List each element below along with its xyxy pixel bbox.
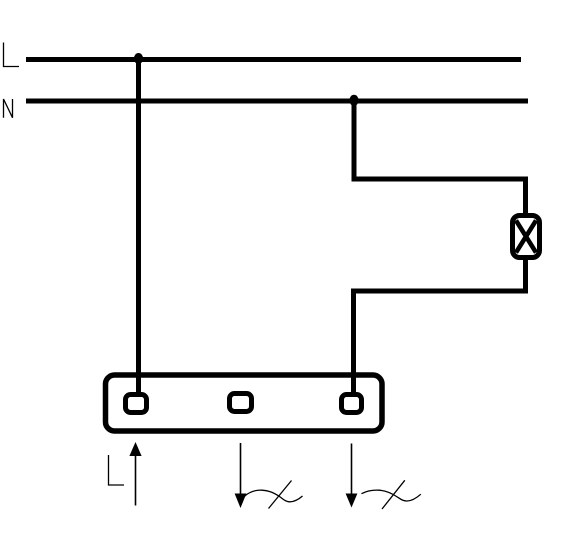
label L (line conductor) xyxy=(4,43,20,67)
switch terminal 3 xyxy=(342,395,362,413)
lamp E1 cross xyxy=(516,221,536,253)
arrow switched line 1 (down) shaft xyxy=(240,443,242,495)
switched-wire slash 2 xyxy=(382,480,405,509)
arrow incoming feed (up) shaft xyxy=(135,454,137,506)
label L at switch feed xyxy=(109,455,125,485)
switched-wire squiggle 1 xyxy=(245,490,303,502)
arrow switched line 2 (down) head xyxy=(346,494,358,508)
arrow switched line 1 (down) head xyxy=(235,494,247,509)
lamp E1 body xyxy=(513,216,540,258)
switch terminal 2 xyxy=(230,394,252,412)
wire from lamp E1 to switch terminal 3 xyxy=(354,257,526,397)
junction dot on N bus xyxy=(349,95,358,106)
label N (neutral conductor) xyxy=(4,99,13,118)
wire from N junction to lamp E1 xyxy=(354,101,526,216)
switched-wire slash 1 xyxy=(269,481,292,509)
arrow incoming feed (up) head xyxy=(129,442,141,456)
wire N bus xyxy=(26,99,528,104)
wire from L junction down to switch terminal 1 xyxy=(136,60,141,398)
switch box S1 body xyxy=(106,375,383,431)
switched-wire squiggle 2 xyxy=(362,490,421,501)
junction dot on L bus xyxy=(134,53,143,64)
switch terminal 1 xyxy=(126,395,147,413)
wire L bus xyxy=(26,57,521,62)
arrow switched line 2 (down) shaft xyxy=(351,444,353,496)
